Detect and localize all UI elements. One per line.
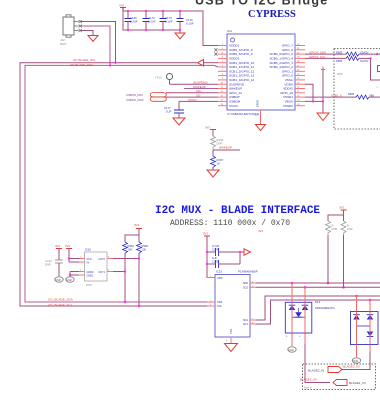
svg-text:VIO: VIO [119, 4, 125, 8]
svg-text:3V3: 3V3 [134, 223, 139, 227]
svg-text:VSSD2: VSSD2 [283, 104, 293, 108]
wire DNP2 down to SC line [343, 235, 345, 287]
wire stub loop at right edge [378, 66, 380, 72]
power flag 3V3 at MUX VDD [203, 232, 210, 237]
wire IC16 out1 to R594 [113, 271, 125, 273]
wire C175 up to arrow node [239, 252, 241, 264]
capacitor C176 [177, 11, 194, 30]
svg-text:SD1: SD1 [243, 318, 249, 322]
gnd symbol diode2 [352, 358, 360, 363]
gnd symbol 1 [55, 277, 63, 282]
svg-text:EPAD: EPAD [256, 100, 260, 107]
svg-text:GPIO4_SDA: GPIO4_SDA [309, 51, 326, 55]
svg-text:1UF: 1UF [166, 110, 172, 114]
svg-text:2.2UF: 2.2UF [130, 20, 138, 24]
wire IC16 out0 to R595 [113, 258, 139, 260]
svg-text:R594: R594 [128, 244, 135, 248]
wire GPIO4_SCL [305, 57, 346, 59]
svg-text:IC16: IC16 [85, 248, 91, 252]
wire I2C BLADE_SDA bus (left loop) [25, 65, 214, 302]
svg-text:IN: IN [87, 262, 90, 265]
svg-text:TP10: TP10 [155, 76, 162, 80]
svg-text:DNP: DNP [45, 263, 51, 267]
resistor R595 10K [137, 242, 149, 255]
wire diode2 to blade2 port [342, 352, 370, 370]
wire GPIO4_SDA [305, 53, 346, 55]
svg-text:BLADE2_5V: BLADE2_5V [343, 364, 360, 368]
wire VCCD [179, 100, 218, 102]
wire R595 down to SCL bus [138, 255, 140, 307]
svg-text:RN5: RN5 [337, 72, 343, 76]
power flag 3V3 pull-ups [134, 223, 142, 235]
svg-text:BLADE1_5V: BLADE1_5V [349, 381, 366, 385]
ground at cap bank [175, 33, 185, 39]
wire cap bank bottom rail [123, 11, 180, 33]
svg-text:SD0: SD0 [243, 281, 249, 285]
svg-text:DNP: DNP [347, 227, 353, 231]
svg-text:I2C_BLADE_SDA: I2C_BLADE_SDA [48, 298, 74, 302]
ground at R167 [207, 170, 219, 177]
svg-text:3V3: 3V3 [65, 244, 70, 248]
svg-text:GND: GND [66, 278, 72, 282]
resistor R585 [336, 51, 380, 57]
capacitor C173 [160, 11, 173, 30]
svg-text:3V3: 3V3 [55, 244, 60, 248]
port arrow on SCL net [198, 60, 204, 66]
wire I2C BLADE_SCL bus (left loop) [20, 63, 207, 306]
resistor R166 DNP [211, 136, 224, 150]
svg-text:UD+: UD+ [196, 89, 202, 93]
svg-text:R: R [347, 224, 349, 228]
svg-text:I2C MUX - BLADE INTERFACE: I2C MUX - BLADE INTERFACE [155, 205, 320, 217]
EPAD pin 33 ground [255, 110, 266, 131]
power flag 3V3 (IC16 vcc) [65, 244, 72, 262]
wire vertical to ground [322, 70, 324, 113]
no-connect X marks pins 2,3 [214, 48, 217, 56]
svg-text:SC1: SC1 [243, 322, 249, 326]
svg-text:C175: C175 [212, 260, 219, 264]
junction dots cap bank [127, 10, 129, 12]
svg-text:VCCD: VCCD [188, 98, 197, 102]
resistor DNP 1 [326, 221, 338, 235]
ground at MUX [225, 344, 238, 352]
junction dots band [291, 282, 294, 285]
svg-text:Note X: Note X [304, 387, 312, 390]
svg-text:I2C_BLADE_SCL: I2C_BLADE_SCL [48, 303, 73, 307]
wire SC1 up-over L4 [256, 300, 380, 324]
dashed option box top right [334, 49, 380, 130]
dashed box blade connectors [303, 364, 376, 390]
svg-text:SCL5V: SCL5V [360, 59, 368, 63]
svg-text:R: R [332, 224, 334, 228]
svg-text:USBON_DM0: USBON_DM0 [126, 98, 144, 102]
test point TP10 [155, 73, 173, 84]
wire diode2 lead B [369, 300, 371, 352]
svg-text:10K: 10K [142, 248, 147, 252]
IC16 level shifter DNP [79, 248, 113, 288]
port USBON_DP0 [126, 93, 166, 97]
svg-text:PCA9545ABDP: PCA9545ABDP [238, 270, 258, 274]
svg-text:SDA: SDA [217, 300, 223, 304]
capacitor C174 [207, 244, 244, 256]
gnd symbol 2 [66, 277, 74, 282]
svg-text:DNP: DNP [60, 42, 66, 46]
capacitor C175 [207, 256, 240, 268]
svg-text:GPIO4_SCL: GPIO4_SCL [309, 55, 326, 59]
svg-text:BLADE1_5V: BLADE1_5V [300, 378, 317, 382]
wire WAKEUP [184, 88, 218, 90]
wire diode1 to blade1 port [305, 344, 330, 383]
wire leads through D14 [356, 312, 358, 345]
capacitor C172 [143, 11, 156, 30]
svg-text:USB1_5: USB1_5 [331, 93, 342, 97]
svg-text:GND: GND [55, 278, 61, 282]
ground top right [317, 113, 329, 121]
svg-text:3V3: 3V3 [205, 126, 210, 130]
gnd symbol diode1 [288, 347, 296, 352]
IC IC4 CYUSB2304 USB-to-I2C bridge [214, 29, 305, 116]
wire SD0 line L1 [256, 282, 380, 284]
svg-text:3V3: 3V3 [258, 229, 263, 233]
svg-text:3V3: 3V3 [203, 232, 208, 236]
capacitor C166 [125, 11, 138, 30]
wire pull-up rail [125, 235, 139, 242]
svg-text:0.1UF: 0.1UF [165, 20, 173, 24]
wire UD+ [166, 92, 218, 94]
svg-text:R583: R583 [348, 92, 355, 96]
wire diode2 lead A [356, 296, 358, 357]
svg-text:CYPRESS: CYPRESS [248, 9, 296, 20]
capacitor C177 [164, 101, 184, 118]
svg-text:0.1UF: 0.1UF [212, 244, 220, 248]
svg-text:IC4: IC4 [227, 29, 232, 33]
svg-text:OUT1: OUT1 [98, 271, 105, 274]
svg-text:IC15: IC15 [216, 270, 222, 274]
svg-text:SCL: SCL [217, 304, 223, 308]
svg-text:2.2UF: 2.2UF [148, 20, 156, 24]
connector J12 [60, 15, 82, 46]
svg-text:1K: 1K [217, 162, 221, 166]
svg-text:USB TO I2C Bridge: USB TO I2C Bridge [195, 0, 328, 8]
port blade2 [328, 367, 342, 373]
svg-text:SC0: SC0 [243, 286, 249, 290]
power flag VIO at cap bank [119, 4, 126, 12]
svg-text:C174: C174 [212, 248, 219, 252]
wire J12 pin3 to ground [81, 31, 93, 36]
wire VSSD to ground vertical [305, 100, 323, 102]
svg-text:R586: R586 [336, 59, 343, 63]
svg-text:SUSPEND: SUSPEND [193, 81, 208, 85]
wire DNP pullup rail [328, 215, 344, 221]
resistor R594 10K [123, 242, 135, 255]
svg-text:R595: R595 [142, 244, 149, 248]
svg-text:ADDRESS: 1110 000x / 0x70: ADDRESS: 1110 000x / 0x70 [170, 219, 290, 228]
wire VDDA to vertical [305, 84, 313, 101]
svg-text:VSS: VSS [229, 329, 233, 334]
svg-text:D13: D13 [315, 300, 321, 304]
junction dots top bus [114, 62, 116, 64]
power flag 3V3 (IC16 cap) [55, 244, 62, 260]
ground at C177 [173, 118, 185, 125]
resistor R583 [348, 92, 380, 99]
power flag 3V3 DNP pullups [339, 206, 347, 216]
port blade1 [333, 380, 347, 386]
wires IC16 left pins [69, 258, 79, 260]
svg-text:1UF: 1UF [212, 256, 217, 260]
svg-text:10K: 10K [128, 248, 133, 252]
svg-text:WAKEUP: WAKEUP [219, 146, 232, 150]
svg-text:BLADE2_IN: BLADE2_IN [308, 369, 324, 373]
svg-text:VDD: VDD [217, 276, 223, 280]
diode array D14 SP4044 [351, 312, 379, 345]
capacitor C214 DNP [45, 259, 63, 276]
wire WAKEUP node [213, 149, 240, 151]
resistor DNP 2 [341, 221, 353, 235]
wire J12 pin1 to SCL bus [81, 22, 116, 63]
wire SUSPEND [170, 83, 219, 85]
wire SC0 line L2 [256, 286, 380, 288]
port USBON_DM0 [126, 97, 166, 102]
wire cap bank top rail to chip pin VDDD1 [123, 11, 218, 46]
svg-text:GND: GND [288, 348, 294, 352]
wire SD1 up-over L3 [256, 296, 380, 320]
MUX IC15 PCA9545 [207, 270, 258, 344]
svg-text:I2C BLADE_SCL: I2C BLADE_SCL [73, 58, 96, 62]
svg-text:DNP: DNP [332, 227, 338, 231]
wire diode1 lead B [304, 287, 306, 344]
port arrow out [244, 249, 251, 255]
svg-text:UD-: UD- [196, 94, 201, 98]
wire J12 pin2 to SDA bus [81, 26, 110, 65]
wire R594 down to SDA bus [124, 255, 126, 303]
svg-text:0.1UF: 0.1UF [186, 22, 194, 26]
resistor R167 1K [211, 150, 224, 170]
svg-text:GND1: GND1 [87, 275, 95, 278]
diode array D13 SP4044 [285, 300, 334, 333]
svg-text:R585: R585 [336, 51, 343, 55]
svg-text:DNP: DNP [86, 283, 92, 287]
wire VDD vertical [207, 236, 215, 278]
power flag 3V3 for wakeup resistors [205, 126, 216, 137]
test point tick TP [321, 67, 325, 70]
wire UD- [166, 96, 218, 98]
wire leads through D13 [291, 302, 293, 333]
resistor R586 [336, 56, 380, 80]
svg-text:I2C BLADE_SDA: I2C BLADE_SDA [70, 63, 93, 67]
svg-text:3V3: 3V3 [339, 206, 344, 210]
svg-text:VCCD: VCCD [229, 104, 239, 108]
wire VBUS to R583 [305, 96, 356, 98]
svg-text:GND: GND [353, 359, 359, 363]
wire DNP1 down to SD line [327, 235, 329, 283]
wire diode1 lead A [291, 283, 293, 346]
svg-text:SP4044BAHTG: SP4044BAHTG [315, 306, 335, 310]
ground at J12 [88, 36, 98, 42]
svg-text:USBON_DP0: USBON_DP0 [126, 93, 143, 97]
svg-text:OUT0: OUT0 [98, 258, 105, 261]
